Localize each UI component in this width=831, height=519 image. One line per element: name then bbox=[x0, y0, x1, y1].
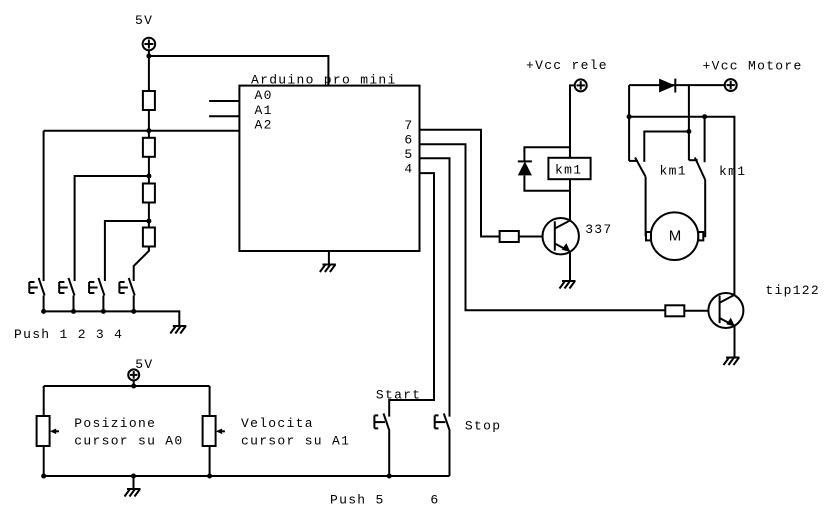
wire: Arduino ground stem bbox=[328, 251, 330, 265]
node: rail2 left bbox=[627, 114, 632, 119]
potentiometer P2 bbox=[203, 416, 225, 446]
wire: contact B to motor right terminal bbox=[703, 180, 705, 236]
resistor R1 bbox=[143, 91, 155, 110]
wire: R2/R3 node to push button 2 bbox=[75, 176, 149, 281]
svg-text:Posizione: Posizione bbox=[74, 416, 156, 431]
op-amp U1 Arduino pro mini box bbox=[239, 86, 419, 251]
svg-text:tip122: tip122 bbox=[765, 283, 820, 298]
ground: Q2 bbox=[724, 358, 740, 366]
wire: pin 4 down to Start button bbox=[389, 173, 434, 417]
resistor R5 (337 base) bbox=[500, 231, 519, 242]
push button Push3 bbox=[89, 278, 104, 312]
diode D1 bbox=[518, 161, 532, 175]
wire: rail2 down to km1 contact B right lead bbox=[704, 117, 706, 163]
svg-text:Arduino pro mini: Arduino pro mini bbox=[251, 72, 397, 87]
svg-text:A2: A2 bbox=[255, 118, 273, 133]
svg-text:Push 1 2 3 4: Push 1 2 3 4 bbox=[14, 327, 123, 342]
resistor R4 bbox=[143, 228, 155, 247]
push button Start bbox=[374, 413, 389, 476]
relay coil km1 bbox=[548, 158, 590, 179]
pin stub A0 bbox=[209, 100, 239, 102]
wire: +Vcc rele to Q1 collector bbox=[570, 85, 575, 220]
svg-text:5: 5 bbox=[404, 147, 413, 162]
wire: pots ground stem bbox=[133, 476, 135, 489]
node: R3/R4 junction bbox=[146, 219, 151, 224]
push button Push2 bbox=[59, 278, 74, 312]
wire: pin 6 to base resistor R6 bbox=[420, 144, 666, 310]
relay contact km1 A (left) bbox=[629, 158, 645, 177]
svg-text:km1: km1 bbox=[660, 163, 687, 178]
wire: R5 to Q1 base bbox=[519, 236, 555, 238]
wire: R6 to Q2 base bbox=[684, 310, 719, 312]
potentiometer P1 bbox=[37, 416, 59, 446]
motor M1 bbox=[646, 212, 703, 260]
node: left pot bottom bbox=[41, 474, 46, 479]
node: right pot bottom bbox=[207, 474, 212, 479]
ground: Arduino bbox=[320, 265, 336, 273]
wire: contact A to motor left terminal bbox=[645, 176, 647, 236]
node: pots 5V junction bbox=[131, 384, 136, 389]
node: push3 bus junction bbox=[101, 309, 106, 314]
svg-text:5V: 5V bbox=[135, 13, 153, 28]
svg-text:Velocita: Velocita bbox=[241, 416, 314, 431]
svg-text:+Vcc rele: +Vcc rele bbox=[526, 58, 608, 73]
resistor R2 bbox=[143, 138, 155, 157]
wire: diode D1 branch bottom bbox=[524, 175, 570, 190]
wire: A2 node down to push button 1 bbox=[43, 131, 45, 281]
node: inner rail junction bbox=[686, 129, 691, 134]
transistor Q1 337 bbox=[543, 218, 579, 254]
wire: bottom rail bbox=[44, 475, 450, 477]
svg-text:cursor su A1: cursor su A1 bbox=[241, 434, 350, 449]
svg-text:Push 5: Push 5 bbox=[330, 492, 385, 507]
wire: motor top rail bbox=[629, 84, 725, 86]
node: Start bottom junction bbox=[387, 474, 392, 479]
wire: Q1 emitter to ground bbox=[569, 252, 571, 281]
svg-text:cursor su A0: cursor su A0 bbox=[74, 434, 183, 449]
node: ground junction bbox=[131, 474, 136, 479]
wire: R3/R4 node to push button 3 bbox=[105, 221, 149, 281]
relay contact km1 B (right) bbox=[689, 158, 705, 180]
ground: pots bbox=[125, 489, 141, 497]
wire: pin 7 to base resistor R5 bbox=[420, 130, 500, 237]
svg-text:km1: km1 bbox=[719, 164, 746, 179]
wire: right pot vertical bbox=[209, 386, 211, 476]
power symbol 5V pots bbox=[128, 369, 139, 380]
wire: push button common bus to ground bbox=[44, 311, 180, 326]
svg-text:Stop: Stop bbox=[465, 419, 501, 434]
wire: 5V to pots top rail bbox=[133, 380, 135, 386]
svg-text:A1: A1 bbox=[255, 103, 273, 118]
node: 5V junction bbox=[146, 54, 151, 59]
wire: node A2 to Arduino pin A2 bbox=[44, 130, 240, 132]
wire: 5V rail to Arduino top bbox=[149, 56, 329, 86]
svg-text:+Vcc Motore: +Vcc Motore bbox=[703, 58, 803, 73]
wire: pin 5 down to Stop button bbox=[420, 158, 450, 416]
node: push1 bus junction bbox=[41, 309, 46, 314]
ground: push buttons bbox=[170, 326, 186, 334]
power symbol +Vcc rele bbox=[575, 79, 587, 91]
node: R1/R2 junction bbox=[146, 128, 151, 133]
wire: R4 to push button 4 bbox=[134, 247, 149, 282]
power symbol +Vcc Motore bbox=[725, 79, 737, 91]
wire: left pot vertical bbox=[43, 386, 45, 476]
svg-text:Start: Start bbox=[376, 388, 422, 403]
svg-text:5V: 5V bbox=[135, 357, 153, 372]
wire: inner rail to km1 contact A right lead bbox=[644, 132, 689, 162]
wire: diode D1 branch top bbox=[524, 147, 570, 162]
wire: diode bypass vertical bbox=[688, 85, 690, 160]
wire: resistor chain vertical bbox=[148, 50, 150, 251]
svg-text:7: 7 bbox=[404, 118, 413, 133]
push button Push1 bbox=[29, 278, 44, 312]
wire: rail left drop to km1 contact A bbox=[628, 85, 630, 161]
node: rail2 right bbox=[702, 114, 707, 119]
node: push4 bus junction bbox=[131, 309, 136, 314]
wire: pots top rail bbox=[44, 385, 210, 387]
push button Stop bbox=[435, 413, 450, 476]
node: R2/R3 junction bbox=[146, 174, 151, 179]
svg-text:4: 4 bbox=[404, 162, 413, 177]
wire: second rail to tip122 collector bbox=[629, 117, 734, 296]
svg-text:A0: A0 bbox=[255, 88, 273, 103]
transistor Q2 tip122 bbox=[708, 293, 743, 328]
svg-text:6: 6 bbox=[404, 133, 413, 148]
svg-text:337: 337 bbox=[585, 222, 612, 237]
wire: Q2 emitter to ground bbox=[734, 326, 736, 357]
ground: Q1 bbox=[560, 281, 576, 289]
resistor R6 (tip122 base) bbox=[665, 305, 684, 316]
svg-text:6: 6 bbox=[430, 492, 439, 507]
node: push2 bus junction bbox=[71, 309, 76, 314]
power symbol 5V top bbox=[143, 38, 156, 51]
push button Push4 bbox=[119, 278, 134, 312]
diode D2 bbox=[659, 79, 675, 93]
svg-text:M: M bbox=[669, 228, 682, 245]
svg-text:km1: km1 bbox=[555, 162, 582, 177]
pin stub A1 bbox=[209, 115, 239, 117]
resistor R3 bbox=[143, 184, 155, 203]
